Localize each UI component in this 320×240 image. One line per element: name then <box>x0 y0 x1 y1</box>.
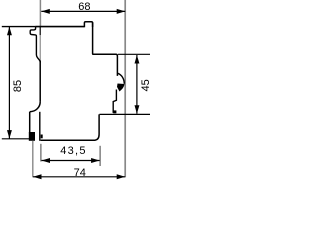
arrowhead 45 top <box>135 55 140 64</box>
arrowhead 43,5 left <box>42 158 51 163</box>
extension line top edge (horizontal, for dim 85) <box>2 26 36 28</box>
extension line 74 left (vertical) <box>32 141 34 178</box>
arrowhead 68 right <box>117 9 126 14</box>
front lower face <box>29 112 31 133</box>
extension line clip top (horizontal, for dim 45 top) <box>118 53 150 55</box>
extension line rear plane (right, vertical, for dims 68 and 74) <box>124 0 126 177</box>
breaker rear lower face <box>95 114 99 140</box>
arrowhead 68 left <box>41 9 50 14</box>
breaker bottom edge <box>41 139 96 141</box>
DIN clip hook (filled) <box>117 84 125 92</box>
arrowhead 45 bottom <box>135 105 140 114</box>
DIN clip bulge arc <box>117 73 124 84</box>
extension line 43,5 right (vertical) <box>99 146 101 166</box>
breaker front face <box>39 27 41 36</box>
extension line bottom (horizontal, for dim 85) <box>2 138 29 140</box>
dimension line 68 <box>41 10 125 12</box>
svg-text:68: 68 <box>78 1 90 13</box>
dimension line 45 <box>136 55 138 114</box>
front foot block (filled) <box>29 132 35 141</box>
inner bottom face line <box>39 112 41 141</box>
DIN clip leg nub <box>113 110 116 113</box>
arrowhead 85 top <box>7 27 12 36</box>
dimension line 74 <box>33 176 125 178</box>
arrowhead 74 right <box>117 174 126 179</box>
svg-text:43,5: 43,5 <box>60 145 87 157</box>
toggle handle outline <box>30 27 40 63</box>
arrowhead 43,5 right <box>91 158 100 163</box>
breaker top ridge bump <box>84 22 92 27</box>
breaker rear upper edge <box>93 22 118 76</box>
extension line 43,5 left (vertical) <box>40 144 42 162</box>
svg-text:45: 45 <box>140 79 150 91</box>
extension + rear step line (horizontal, for dim 45 bottom) <box>99 113 150 115</box>
arrowhead 85 bottom <box>7 130 12 139</box>
arrowhead 74 left <box>33 174 42 179</box>
DIN clip lower leg <box>113 90 116 113</box>
dimension line 43,5 <box>42 160 100 162</box>
svg-text:74: 74 <box>74 167 86 179</box>
bottom latch nub <box>41 135 43 139</box>
extension line front face (left, vertical, for dim 68) <box>39 0 41 26</box>
front lower flare curve <box>30 102 40 112</box>
breaker top edge <box>35 26 84 28</box>
svg-text:85: 85 <box>12 80 24 92</box>
dimension line 85 <box>8 27 10 139</box>
